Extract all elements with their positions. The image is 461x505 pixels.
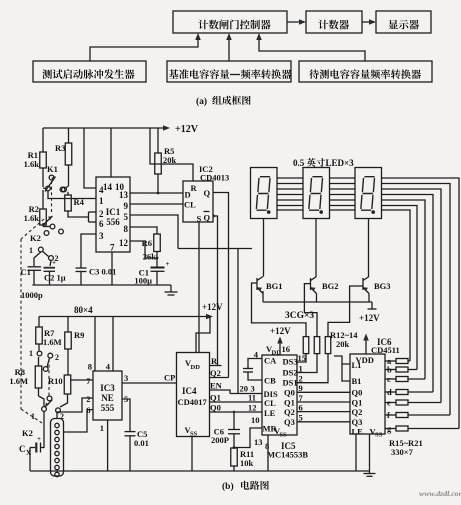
svg-text:1.6M: 1.6M <box>43 337 62 347</box>
svg-text:1: 1 <box>29 349 33 358</box>
svg-text:Q2: Q2 <box>210 368 221 378</box>
counter IC4 CD4017 box <box>177 353 210 437</box>
wire: pins 2-6 join <box>88 212 90 222</box>
svg-text:CL: CL <box>184 200 196 210</box>
decoder IC6 CD4511 box <box>350 354 385 434</box>
ground rail bottom <box>30 470 370 472</box>
wire: IC4 Vss to ground <box>191 437 193 472</box>
wire: rail to R7 <box>38 317 40 328</box>
svg-text:BG2: BG2 <box>322 281 339 291</box>
wire: IC5 pin8 to ground <box>267 435 269 471</box>
op-amp/timer IC1 556 box <box>96 177 130 252</box>
svg-text:555: 555 <box>101 403 115 413</box>
capacitor C7 across CA CB <box>248 359 262 369</box>
svg-text:13: 13 <box>119 190 129 200</box>
wire: BG2 emitter to rail <box>316 294 318 303</box>
svg-text:DS2: DS2 <box>283 368 298 378</box>
wire: rail drop to R1 <box>42 128 44 152</box>
wire: IC3 pin4 to rail <box>112 317 114 372</box>
wire: IC1 pin6 <box>89 221 97 223</box>
wire: rail drop to IC2 R pin <box>150 128 193 181</box>
wire: reference converter up to gate controller <box>228 35 230 61</box>
resistor R1 <box>40 152 47 168</box>
wire: display3 to BG3 collector <box>368 219 370 277</box>
wire: contact1 to C1 <box>34 252 41 266</box>
wire: BG2 base path to R13 <box>304 284 317 337</box>
wire: IC1 pin7 to ground wire <box>111 252 113 285</box>
wire: IC2 Q to IC4 Q2 <box>213 193 229 378</box>
wire: IC1 pin9 to IC2 CL <box>130 203 183 205</box>
svg-text:7: 7 <box>110 243 115 253</box>
IC4 pin Q1 to IC5 CL <box>210 401 263 403</box>
svg-text:Q2: Q2 <box>284 407 295 417</box>
gang dashes K1-K2 <box>51 181 53 212</box>
svg-text:(a): (a) <box>196 96 207 107</box>
svg-text:Q3: Q3 <box>352 417 363 427</box>
svg-text:Q1: Q1 <box>284 398 295 408</box>
svg-text:8: 8 <box>88 362 92 372</box>
wire: IC3 pin1 to ground <box>107 420 109 471</box>
wire: R9 to R10 <box>67 349 69 375</box>
svg-text:0.5: 0.5 <box>293 158 305 168</box>
resistor R6 26k <box>154 234 161 252</box>
LED display DS3 (7-segment) <box>355 168 382 219</box>
svg-text:C2 1μ: C2 1μ <box>44 273 66 283</box>
wire: contact to CX <box>41 412 45 448</box>
wire: IC1 pin5 right <box>130 215 178 249</box>
wire: rail to R9 <box>67 317 69 333</box>
gang dashes lower <box>48 359 50 396</box>
svg-text:Q3: Q3 <box>284 417 295 427</box>
svg-text:R6: R6 <box>142 238 152 248</box>
svg-text:9: 9 <box>124 201 129 211</box>
svg-text:CD4511: CD4511 <box>371 345 400 355</box>
svg-text:10: 10 <box>251 415 260 425</box>
svg-text:IC4: IC4 <box>182 386 197 396</box>
svg-text:MC14553B: MC14553B <box>267 450 308 460</box>
svg-text:CL: CL <box>264 398 276 408</box>
capacitor C1 1000p <box>28 266 42 268</box>
svg-text:1: 1 <box>299 364 303 374</box>
LED display DS1 (7-segment) <box>251 168 278 219</box>
wire: BG3 emitter to rail <box>368 294 370 303</box>
wire: IC5 Q1 to IC6 <box>297 401 350 403</box>
wire: R1 to K1 <box>42 168 44 187</box>
wire: IC1 pin2 <box>89 211 97 213</box>
svg-text:BG1: BG1 <box>266 281 283 291</box>
resistor R14 <box>325 337 331 354</box>
svg-text:DS1: DS1 <box>283 378 298 388</box>
svg-text:Q1: Q1 <box>210 393 221 403</box>
capacitor C3 0.01 <box>76 267 87 269</box>
wire: rail drop to R5 <box>157 128 159 153</box>
resistor R3 <box>65 143 72 165</box>
wire: BG1 emitter to rail <box>262 291 264 302</box>
resistor R5 20k <box>155 153 162 174</box>
wire: R5 bottom to D row <box>157 174 159 193</box>
wire: display1 to BG1 collector <box>263 219 265 277</box>
wire: R6 to C1b <box>156 252 158 267</box>
svg-text:CA: CA <box>264 356 277 366</box>
svg-text:www.dzdl.com: www.dzdl.com <box>419 489 461 498</box>
svg-text:1000p: 1000p <box>21 290 43 300</box>
svg-text:1: 1 <box>31 412 35 421</box>
svg-text:B1: B1 <box>352 376 362 386</box>
label K2 lower <box>0 0 1 1</box>
svg-text:SS: SS <box>190 431 198 438</box>
IC4 pin Q2 <box>210 377 229 379</box>
svg-text:R3: R3 <box>55 143 65 153</box>
svg-text:EN: EN <box>210 381 223 391</box>
switch contacts lower <box>47 396 52 401</box>
svg-text:12: 12 <box>248 403 257 413</box>
wire: pulse generator up to gate controller <box>90 35 198 61</box>
svg-text:200P: 200P <box>211 435 229 445</box>
block: capacitance-under-test frequency converter box <box>299 61 432 82</box>
svg-text:Q2: Q2 <box>352 407 363 417</box>
svg-text:Q: Q <box>204 213 211 223</box>
wire: IC5 Q3 to IC6 <box>297 421 350 423</box>
svg-text:IC3: IC3 <box>100 383 115 393</box>
svg-text:LE: LE <box>352 427 364 437</box>
svg-text:R9: R9 <box>74 330 84 340</box>
wire: IC1 pin8 to R6 <box>130 227 157 234</box>
capacitor C6 200P <box>233 412 235 430</box>
svg-text:R: R <box>191 183 198 193</box>
svg-text:12: 12 <box>119 238 129 248</box>
transistor BG1 <box>256 278 258 290</box>
block: test start pulse generator box <box>33 61 146 82</box>
wire: K1 to R2 <box>42 190 44 209</box>
svg-text:1.6M: 1.6M <box>9 376 28 386</box>
capacitor C2 1u <box>44 267 56 269</box>
wire: BG1 base path to R12 <box>252 283 307 337</box>
svg-text:3: 3 <box>124 373 128 383</box>
wire: 80x4 +12V rail <box>39 316 210 318</box>
svg-text:R: R <box>211 356 218 366</box>
resistor R11 10k <box>231 448 238 466</box>
ground symbol bottom right <box>369 471 371 474</box>
wire: socket top to IC3 pin2 <box>57 398 93 419</box>
svg-text:Q0: Q0 <box>352 388 363 398</box>
wire: rail drop to R3 <box>68 128 70 143</box>
svg-text:D: D <box>185 190 191 200</box>
block: counting gate controller box <box>173 11 287 33</box>
wire: rail drop to IC1 pin4 <box>84 128 96 188</box>
wire: IC3 pin3 to CP <box>122 382 177 384</box>
svg-text:1.6k: 1.6k <box>24 213 40 223</box>
svg-text:2: 2 <box>55 353 59 362</box>
svg-text:5: 5 <box>299 413 303 423</box>
svg-text:+12V: +12V <box>359 313 380 323</box>
svg-text:+12V: +12V <box>175 124 199 135</box>
svg-text:1.6k: 1.6k <box>24 159 40 169</box>
svg-text:4: 4 <box>99 185 104 195</box>
svg-text:+12V: +12V <box>270 326 291 336</box>
svg-text:6: 6 <box>99 219 104 229</box>
svg-text:CB: CB <box>264 376 276 386</box>
wire: down to DIS <box>237 249 239 394</box>
capacitor C5 0.01 <box>125 431 136 433</box>
wire: VDD to rail arrow <box>196 317 210 353</box>
svg-text:+: + <box>166 260 170 268</box>
IC4 pin R <box>210 365 222 367</box>
svg-text:Q1: Q1 <box>352 398 363 408</box>
svg-text:9: 9 <box>299 383 303 393</box>
resistor R4 <box>65 195 72 211</box>
svg-text:+: + <box>52 259 56 267</box>
wire: cross connect row <box>178 248 252 250</box>
transistor BG3 <box>362 278 364 290</box>
svg-text:LE: LE <box>264 408 276 418</box>
ground wire of 556 section <box>32 284 171 286</box>
resistor R10 <box>64 375 71 394</box>
switch K2 upper <box>50 224 55 229</box>
flip-flop IC2 CD4013 box <box>183 181 213 222</box>
wire: IC5 Q0 to IC6 <box>297 391 350 393</box>
wire: IC1 pin12 jog <box>130 241 157 258</box>
wire: IC2 S down to IC4 <box>198 222 200 353</box>
wire: gate controller to counter arrow <box>287 21 304 23</box>
wire: counter to display arrow <box>362 21 374 23</box>
wire: emitter +12V rail <box>263 301 372 303</box>
resistor R13 <box>314 337 320 354</box>
svg-text:C1: C1 <box>21 267 31 277</box>
svg-text:1: 1 <box>99 196 104 206</box>
counter IC5 MC14553B box <box>262 355 297 435</box>
svg-text:14: 14 <box>103 182 113 192</box>
svg-text:20k: 20k <box>336 339 350 349</box>
wire: IC1 pin13 to IC2 D <box>138 192 183 194</box>
wire: R3 to contact <box>68 165 70 186</box>
svg-text:C: C <box>19 444 26 454</box>
svg-text:CP: CP <box>164 373 175 383</box>
resistor R9 <box>65 332 72 349</box>
capacitor C1 100u polarized <box>151 267 165 269</box>
svg-text:5: 5 <box>124 212 129 222</box>
wire: 7-segment bus from displays to right columns <box>266 178 459 429</box>
wire: IC6 LE down <box>355 434 357 471</box>
wire: IC3 pin8 to rail <box>94 317 96 372</box>
svg-text:2: 2 <box>86 394 90 404</box>
svg-text:2: 2 <box>99 209 104 219</box>
svg-text:4: 4 <box>106 362 111 372</box>
block: display box <box>376 11 431 33</box>
svg-text:100μ: 100μ <box>134 276 152 286</box>
svg-text:16: 16 <box>282 344 291 354</box>
svg-text:CD4013: CD4013 <box>200 173 229 183</box>
capacitor CX <box>35 443 37 453</box>
svg-text:Q0: Q0 <box>284 388 295 398</box>
svg-text:L1: L1 <box>352 360 362 370</box>
svg-text:2: 2 <box>299 374 303 384</box>
svg-text:K2: K2 <box>22 428 33 438</box>
wire: R13 to DS2 <box>297 354 317 373</box>
block: reference capacitance-frequency converter box <box>167 61 291 82</box>
switch contacts under R7 <box>38 344 40 351</box>
IC4 pin EN <box>210 390 231 394</box>
wire: IC6 Vss to ground <box>369 434 371 471</box>
svg-text:8: 8 <box>124 224 129 234</box>
resistor R2 <box>40 209 47 225</box>
svg-text:10k: 10k <box>240 458 254 468</box>
svg-text:15: 15 <box>298 353 307 363</box>
svg-text:LED×3: LED×3 <box>326 158 355 168</box>
resistors R15-R21 <box>385 360 396 362</box>
wire: display2 to BG2 collector <box>315 219 317 277</box>
wire: R14 to DS1 <box>297 354 328 383</box>
timer IC3 NE555 box <box>93 371 122 420</box>
wire: R12 to DS3 <box>297 354 306 362</box>
wire: IC2 Qbar to IC4 R <box>213 216 218 366</box>
wire: IC5 Q2 to IC6 <box>297 411 350 413</box>
svg-text:(b): (b) <box>222 481 234 492</box>
svg-text:K2: K2 <box>30 233 41 243</box>
svg-text:20: 20 <box>240 384 249 394</box>
wire: IC5 MR loop <box>234 428 262 448</box>
wire: test converter up to gate controller <box>259 35 365 61</box>
svg-text:DD: DD <box>191 364 201 371</box>
wire: K1 to IC1 pin1 <box>48 191 96 199</box>
svg-text:1: 1 <box>100 423 104 433</box>
svg-text:7: 7 <box>86 376 91 386</box>
svg-text:CD4017: CD4017 <box>178 397 208 407</box>
svg-text:1: 1 <box>29 246 33 255</box>
svg-text:NE: NE <box>101 393 114 403</box>
connector socket CX <box>51 419 64 477</box>
svg-text:Q0: Q0 <box>210 403 221 413</box>
svg-text:R10: R10 <box>48 376 63 386</box>
svg-text:+12V: +12V <box>202 302 223 312</box>
svg-text:SS: SS <box>375 432 383 439</box>
wire: IC3 pin7 to R10 <box>70 379 93 381</box>
IC4 pin Q0 to IC5 LE <box>210 411 263 413</box>
wire: IC6 L1 B1 tie <box>342 364 350 381</box>
svg-text:DS3: DS3 <box>283 357 298 367</box>
svg-text:BG3: BG3 <box>374 281 391 291</box>
resistor R12 <box>303 337 309 354</box>
wire: IC3 pin6 to socket <box>64 410 94 432</box>
svg-text:330×7: 330×7 <box>391 447 414 457</box>
dashed gang to lower section <box>21 219 44 239</box>
svg-text:80×4: 80×4 <box>74 305 93 315</box>
wire: contact2 to C2 <box>50 261 51 267</box>
wire: R2 to K2 <box>42 223 44 227</box>
wire: R4 bottom to IC1 pins 2-6 <box>68 211 89 217</box>
wire: DIS row <box>230 393 262 395</box>
svg-text:0.01: 0.01 <box>134 438 149 448</box>
wire: IC3 pin5 to C5 <box>122 399 130 432</box>
IC6 +12V arrow <box>365 340 367 354</box>
svg-text:+: + <box>37 435 41 443</box>
svg-text:6: 6 <box>86 405 90 415</box>
transistor BG2 <box>310 278 312 290</box>
LED display DS2 (7-segment) <box>303 168 330 219</box>
block: counter box <box>306 11 362 33</box>
svg-text:Q: Q <box>204 188 211 198</box>
wire: +12V top rail <box>43 127 168 129</box>
resistor R7 1.6M <box>36 327 43 344</box>
svg-text:13: 13 <box>254 437 263 447</box>
svg-text:K1: K1 <box>47 164 58 174</box>
svg-text:IC1: IC1 <box>106 207 121 217</box>
ground symbol top section <box>170 285 172 292</box>
wire: BG3 base path to R14 <box>328 286 363 337</box>
svg-text:3: 3 <box>99 231 104 241</box>
resistor R8 1.6M <box>35 366 42 388</box>
wire: IC1 pin3 to C3 <box>81 234 96 268</box>
svg-text:3: 3 <box>251 384 255 394</box>
wire: IC1 pin14 to rail <box>110 128 112 177</box>
svg-text:SS: SS <box>280 432 288 439</box>
svg-text:556: 556 <box>106 217 120 227</box>
